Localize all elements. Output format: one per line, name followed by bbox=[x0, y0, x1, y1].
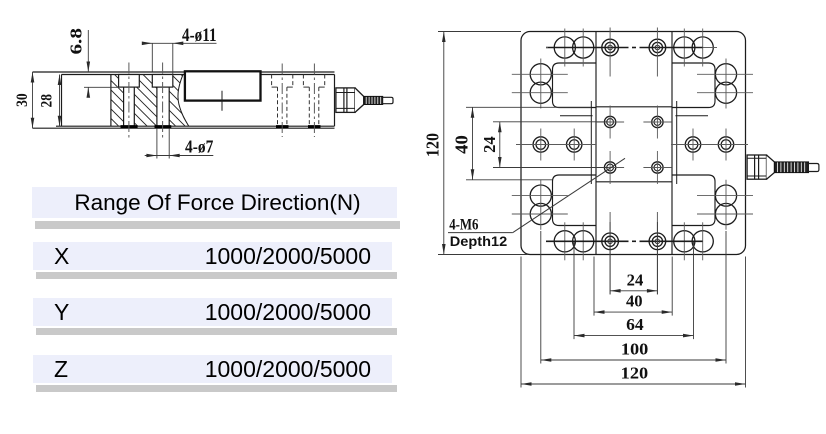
top view: cable gland bbox=[747, 155, 819, 179]
top view: M6 tapped hole lower-left bbox=[596, 151, 624, 184]
svg-text:40: 40 bbox=[626, 292, 643, 311]
top view: plate cutout bottom-right bbox=[672, 175, 715, 226]
top view: slot bottom-right (double hole) bbox=[674, 222, 714, 260]
table row Z bbox=[36, 385, 397, 392]
side view: hidden hole A (dashed) bbox=[272, 75, 293, 127]
top view: row centerline top bbox=[546, 47, 717, 49]
svg-text:24: 24 bbox=[480, 136, 499, 153]
top view: M6 tapped hole lower-right bbox=[643, 151, 671, 184]
label 4-Ø7 (bottom holes) bbox=[145, 129, 214, 159]
top view: mounting hole left-inner bbox=[567, 129, 582, 161]
top view: slot left-upper (double hole) bbox=[512, 59, 568, 109]
dimension 30 (left) bbox=[14, 72, 34, 128]
top view: strip end hole bottom-left bbox=[602, 212, 619, 295]
side view: centerline of hole 1 bbox=[128, 63, 130, 138]
dimension 120 (bottom) bbox=[521, 257, 746, 388]
top view: plate cutout bottom-left bbox=[553, 175, 597, 226]
table row Y bbox=[36, 328, 397, 335]
label 4-Ø11 (top holes) bbox=[142, 25, 217, 87]
svg-text:120: 120 bbox=[423, 133, 443, 157]
top view: M6 tapped hole upper-left bbox=[596, 106, 624, 139]
dimension 40 (bottom) bbox=[594, 257, 672, 316]
top view: slot bottom-left (double hole) bbox=[554, 222, 594, 260]
side view: hidden hole B (dashed) bbox=[303, 75, 324, 127]
dimension 100 (bottom) bbox=[541, 231, 726, 364]
svg-text:64: 64 bbox=[626, 315, 644, 334]
top view: strip end hole top-right bbox=[649, 28, 666, 77]
top view: slot left-lower (double hole) bbox=[512, 180, 568, 230]
top view: mounting hole right-inner bbox=[685, 129, 700, 161]
top view: plate cutout top-right bbox=[672, 63, 715, 108]
svg-text:100: 100 bbox=[621, 340, 649, 359]
table: range of force direction bbox=[35, 221, 400, 229]
top view: mid row centerline right bbox=[671, 144, 748, 146]
top view: step lines beside strip bbox=[560, 101, 708, 184]
side view: counterbored hole 1 (4-Ø11 / 4-Ø7) bbox=[119, 75, 140, 127]
top view: mounting hole right-outer bbox=[718, 129, 733, 161]
dimension 120 (left of top view) bbox=[423, 32, 528, 255]
side view: pocket cover plate bbox=[185, 71, 261, 111]
top view: outer square plate 120x120 bbox=[521, 32, 746, 255]
table row X bbox=[36, 272, 397, 279]
top view: strip end hole top-left bbox=[602, 28, 619, 77]
side view: centerline hole B bbox=[313, 64, 315, 138]
svg-text:4-M6: 4-M6 bbox=[449, 216, 478, 233]
side view: centerline hole A bbox=[281, 64, 283, 138]
dimension 40 (left, cutout band) bbox=[452, 107, 592, 180]
side view: hatched section block bbox=[111, 75, 189, 127]
top view: center strip (load cell body edges) bbox=[596, 32, 672, 255]
top view: slot top-right (double hole) bbox=[674, 29, 714, 67]
svg-text:40: 40 bbox=[452, 135, 472, 154]
dimension 24 (left, M6 rows) bbox=[480, 122, 608, 168]
side view: load cell body outline bbox=[33, 72, 335, 128]
dimension 24 (bottom) bbox=[610, 222, 657, 294]
top view: strip end hole bottom-right bbox=[649, 212, 666, 295]
top view: M6 tapped hole upper-right bbox=[643, 106, 671, 139]
side view: centerline of hole 2 bbox=[162, 63, 164, 141]
svg-text:24: 24 bbox=[627, 270, 644, 289]
top view: slot top-left (double hole) bbox=[554, 29, 594, 67]
svg-text:120: 120 bbox=[621, 364, 649, 383]
top view: plate cutout top-left bbox=[553, 63, 597, 108]
svg-text:Depth12: Depth12 bbox=[450, 234, 508, 249]
label 4-M6 Depth12 with leader bbox=[448, 158, 625, 249]
side view: cable gland bbox=[336, 88, 393, 113]
dimension 64 (bottom) bbox=[574, 242, 694, 339]
top view: mid row centerline left bbox=[516, 144, 596, 146]
top view: row centerline bottom bbox=[546, 240, 703, 242]
top view: middle box of strip bbox=[596, 107, 672, 182]
dimension 28 (left) bbox=[39, 75, 62, 127]
top view: mounting hole left-outer bbox=[533, 129, 548, 161]
top view: slot right-lower (double hole) bbox=[697, 180, 753, 230]
dimension 6.8 (top) bbox=[67, 28, 120, 98]
side view: counterbored hole 2 bbox=[152, 75, 173, 127]
top view: slot right-upper (double hole) bbox=[697, 59, 753, 109]
